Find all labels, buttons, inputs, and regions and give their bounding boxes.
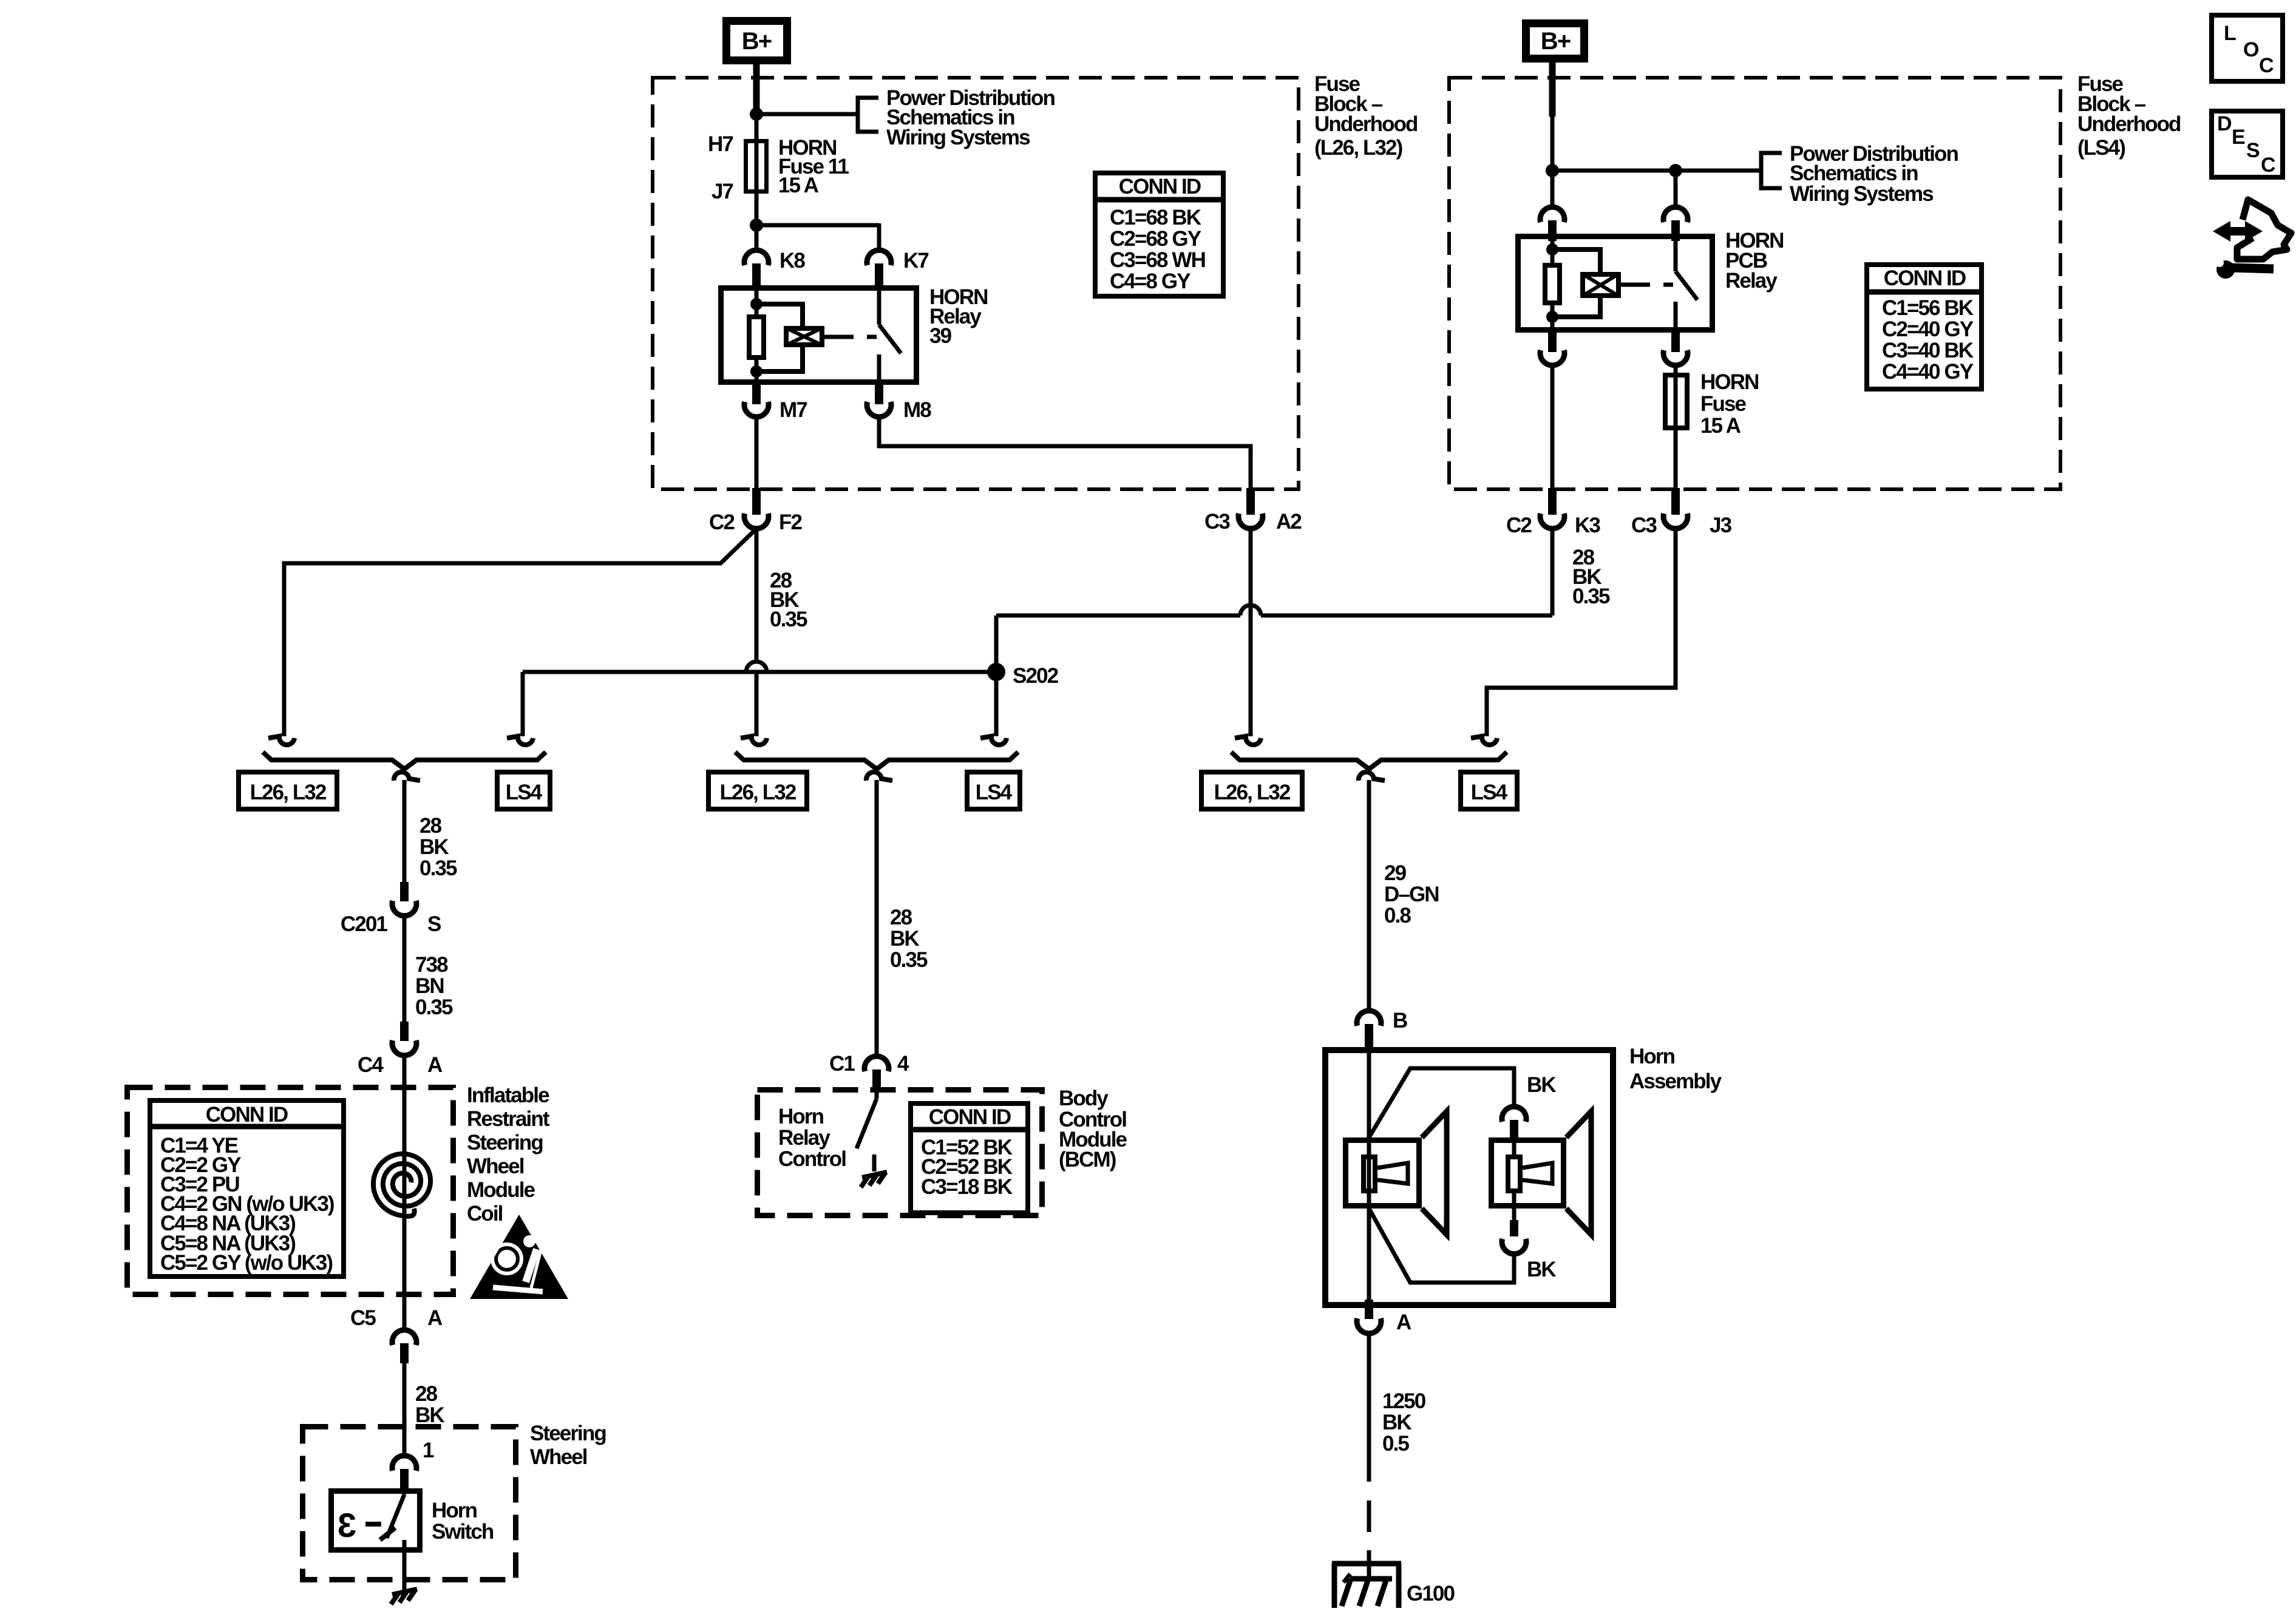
connector K8 arc [744, 250, 769, 265]
wire A down [1367, 1334, 1371, 1482]
wire relay to C2-K3 [1550, 365, 1555, 489]
svg-text:0.35: 0.35 [415, 995, 453, 1019]
svg-text:A2: A2 [1276, 510, 1302, 534]
svg-text:L26, L32: L26, L32 [250, 781, 327, 804]
svg-text:K7: K7 [903, 249, 928, 273]
svg-text:28: 28 [415, 1382, 438, 1406]
right horn driver [1508, 1157, 1520, 1191]
wire B+ to junction (right) [1549, 63, 1556, 117]
right horn bell [1566, 1111, 1591, 1235]
inflatable restraint module dashed box [127, 1088, 453, 1295]
steering wheel dashed box [303, 1427, 516, 1580]
connector C1 arc [864, 1056, 889, 1071]
svg-text:HORN: HORN [1700, 370, 1758, 394]
svg-text:1250: 1250 [1382, 1389, 1426, 1413]
svg-text:BK: BK [890, 927, 919, 951]
svg-text:15 A: 15 A [778, 174, 819, 197]
svg-text:B+: B+ [1541, 28, 1571, 55]
svg-text:Restraint: Restraint [467, 1107, 550, 1131]
svg-text:BK: BK [1527, 1073, 1556, 1097]
wire C2-F2 down [755, 529, 759, 662]
relay switch blade [879, 325, 901, 353]
svg-text:Underhood: Underhood [1314, 112, 1418, 136]
horn switch box [331, 1491, 420, 1550]
svg-text:LS4: LS4 [506, 781, 543, 804]
relay resistor (right) [1545, 265, 1560, 303]
svg-text:Relay: Relay [1725, 269, 1778, 293]
wire C201 to C4 [402, 916, 407, 1023]
wire through fuse F11 [755, 140, 759, 225]
wire from right horn bottom [1369, 1209, 1514, 1283]
wire group2 stem [875, 780, 879, 1057]
svg-text:S: S [427, 912, 441, 936]
junction dot relay bottom [750, 365, 763, 378]
svg-text:L26, L32: L26, L32 [1214, 781, 1291, 804]
pointer icon double arrow [2213, 221, 2263, 242]
wire-start hook group2 [866, 772, 892, 781]
svg-text:Wiring Systems: Wiring Systems [1790, 182, 1934, 206]
splice S202 dot [987, 663, 1005, 681]
svg-text:Coil: Coil [467, 1202, 503, 1225]
DESC reference box [2212, 111, 2283, 177]
connector K7 pin [875, 263, 883, 286]
connector C4 arc [392, 1040, 416, 1056]
connector C3-A2 arc [1238, 514, 1263, 529]
svg-text:BN: BN [415, 974, 444, 998]
left horn nozzle [1377, 1163, 1408, 1184]
svg-text:G100: G100 [1407, 1582, 1455, 1605]
svg-text:D–GN: D–GN [1384, 883, 1439, 906]
bcm switch contact [872, 1154, 877, 1171]
connector C3-J3 pin [1671, 488, 1680, 515]
connector relay-out right arc [1663, 350, 1688, 365]
connector relay-in right arc [1663, 207, 1688, 222]
svg-text:BK: BK [415, 1403, 444, 1427]
svg-text:L: L [2224, 22, 2236, 45]
svg-text:C5=2 GY (w/o UK3): C5=2 GY (w/o UK3) [160, 1251, 332, 1275]
right horn body [1492, 1141, 1564, 1206]
wire B+ to junction (left) [753, 64, 760, 117]
svg-text:A: A [427, 1053, 443, 1077]
connector B pin [1365, 1024, 1373, 1048]
svg-text:0.35: 0.35 [1572, 585, 1610, 608]
svg-text:LS4: LS4 [976, 781, 1013, 804]
svg-text:Horn: Horn [778, 1105, 824, 1128]
relay actuator dashed link [835, 335, 877, 339]
ground symbol (steering wheel) [391, 1589, 417, 1604]
connector C2-K3 pin [1548, 488, 1557, 515]
svg-text:4: 4 [897, 1052, 909, 1076]
relay coil symbol [786, 328, 822, 345]
svg-text:D: D [2217, 112, 2232, 135]
svg-text:Horn: Horn [1629, 1045, 1675, 1068]
ground symbol (BCM) [861, 1172, 887, 1187]
options brace group2 [735, 752, 1018, 769]
svg-text:C3=68 WH: C3=68 WH [1110, 248, 1205, 272]
svg-text:Relay: Relay [778, 1126, 830, 1150]
svg-text:S: S [2246, 139, 2260, 162]
connector 1 arc [392, 1456, 416, 1471]
horn assembly main wire [1367, 1048, 1371, 1301]
svg-text:CONN ID: CONN ID [206, 1103, 288, 1127]
junction dot A2 [750, 219, 763, 232]
option box L26,L32 (group2) [708, 772, 807, 809]
svg-text:15 A: 15 A [1700, 414, 1741, 438]
connector C4 pin [400, 1022, 409, 1041]
right horn internal wire [1512, 1137, 1517, 1154]
svg-text:CONN ID: CONN ID [1119, 175, 1201, 198]
svg-text:C2: C2 [709, 510, 735, 534]
svg-text:C2=68 GY: C2=68 GY [1110, 227, 1201, 251]
wire C2-F2 below hop [755, 672, 759, 736]
connector right horn top arc [1502, 1107, 1526, 1122]
steering wheel coil spiral [373, 1154, 430, 1216]
connector M8 pin [875, 385, 883, 404]
wire C5 to steering wheel [402, 1363, 407, 1457]
connector C3-A2 pin [1246, 488, 1255, 515]
wire-end hook group3 left [1235, 736, 1261, 745]
svg-text:C4=40 GY: C4=40 GY [1882, 360, 1974, 384]
wire junction to fuse H7 [755, 114, 759, 140]
power feed symbol B+ (left) [727, 21, 787, 61]
left horn body [1346, 1141, 1419, 1206]
wire M8 to C3-A2 [879, 417, 1251, 489]
connector relay-out left arc [1540, 350, 1564, 365]
relay box HORN Relay 39 [721, 288, 917, 382]
connector A pin [1365, 1300, 1373, 1319]
svg-text:J7: J7 [712, 180, 733, 203]
relay coil leg wire (right relay) [1550, 234, 1555, 333]
svg-text:C2=40 GY: C2=40 GY [1882, 317, 1974, 341]
horn switch blade [402, 1490, 407, 1494]
wire S202 to group2 hook [994, 672, 999, 736]
junction dot A1 [750, 107, 763, 121]
connector C201 arc [392, 901, 416, 916]
options brace group3 [1231, 752, 1507, 769]
connector C2-K3 arc [1540, 514, 1564, 529]
wire fuse to K8 [755, 194, 759, 251]
conn id table (BCM) [911, 1103, 1028, 1213]
svg-text:CONN ID: CONN ID [1884, 266, 1966, 290]
connector M8 arc [867, 402, 891, 417]
svg-text:F2: F2 [779, 510, 802, 534]
connector C201 pin [400, 882, 409, 901]
relay coil leg wire (left relay) [755, 285, 759, 385]
svg-text:K8: K8 [779, 249, 805, 273]
wire-end hook group1 right [507, 736, 533, 745]
svg-text:Steering: Steering [530, 1422, 606, 1445]
svg-text:0.8: 0.8 [1384, 904, 1411, 927]
connector C5 arc [392, 1330, 416, 1345]
wire hop over C3-A2 wire [1240, 605, 1261, 615]
wire-start hook group3 [1359, 772, 1385, 781]
ground symbol G100 [1332, 1561, 1401, 1567]
wire splice left leg [521, 672, 525, 736]
wire C3-J3 down [1487, 529, 1676, 736]
fuse block underhood (L26,L32) dashed box [653, 78, 1299, 489]
relay switch upper contact [877, 285, 881, 325]
conn id table (left fuse block) [1095, 173, 1223, 296]
svg-text:738: 738 [415, 953, 448, 977]
relay actuator dashed link (right) [1632, 283, 1673, 287]
svg-text:L26, L32: L26, L32 [720, 781, 796, 804]
relay box HORN PCB Relay [1518, 237, 1713, 330]
svg-text:C201: C201 [341, 912, 388, 936]
left horn bell [1422, 1111, 1447, 1235]
relay coil symbol (right) [1583, 274, 1618, 296]
body control module dashed box [758, 1090, 1042, 1216]
svg-text:B+: B+ [742, 28, 772, 55]
svg-text:C2: C2 [1506, 514, 1532, 537]
fuse block underhood (LS4) dashed box [1449, 78, 2060, 489]
svg-text:C3: C3 [1631, 514, 1657, 537]
wire C3-A2 down [1249, 529, 1253, 736]
splice wire S202 horizontal [523, 670, 996, 674]
junction dot relay bottom (right) [1546, 311, 1558, 323]
wire M7 to C2-F2 [755, 417, 759, 489]
svg-text:C3: C3 [1204, 510, 1230, 534]
connector K8 pin [752, 263, 761, 286]
svg-text:Horn: Horn [432, 1499, 477, 1522]
right horn nozzle [1523, 1163, 1552, 1184]
connector 1 pin [400, 1469, 409, 1488]
svg-text:Wheel: Wheel [530, 1445, 587, 1469]
svg-text:LS4: LS4 [1471, 781, 1508, 804]
svg-text:C1=68 BK: C1=68 BK [1110, 206, 1201, 229]
svg-text:(LS4): (LS4) [2077, 136, 2125, 160]
bcm switch blade [857, 1099, 877, 1148]
connector B arc [1357, 1011, 1381, 1026]
svg-text:C: C [2261, 154, 2275, 177]
svg-text:C: C [2259, 54, 2274, 77]
junction dot relay top [750, 298, 763, 310]
svg-text:0.35: 0.35 [419, 856, 457, 880]
svg-text:Wheel: Wheel [467, 1154, 524, 1178]
wire S202 up-right run [994, 615, 999, 672]
relay switch blade (right) [1676, 271, 1697, 300]
wire-end hook group1 left [268, 736, 294, 745]
svg-text:BK: BK [1527, 1258, 1556, 1281]
svg-text:Assembly: Assembly [1629, 1070, 1722, 1093]
connector K7 arc [867, 250, 891, 265]
horn assembly box [1325, 1050, 1613, 1305]
off-page reference bracket (left) [858, 98, 878, 132]
option box LS4 (group2) [967, 772, 1020, 809]
connector right horn top pin [1510, 1120, 1518, 1137]
svg-text:B: B [1393, 1009, 1407, 1032]
wire horn switch to ground [402, 1553, 407, 1591]
svg-text:Fuse: Fuse [1700, 392, 1747, 416]
diagonal wire C2-F2 to left run [284, 529, 756, 736]
horn switch fixed contact [402, 1540, 407, 1553]
svg-text:BK: BK [1382, 1411, 1411, 1434]
wire B2 down to relay [1674, 171, 1678, 207]
connector right horn bottom arc [1502, 1239, 1526, 1254]
svg-text:Body: Body [1059, 1086, 1109, 1110]
svg-text:CONN ID: CONN ID [929, 1105, 1011, 1129]
wire-end hook group2 right [980, 736, 1007, 745]
svg-text:K3: K3 [1575, 514, 1600, 537]
relay switch lower contact [877, 354, 881, 385]
option box L26,L32 (group1) [239, 772, 337, 809]
wire to right horn top [1369, 1068, 1514, 1137]
connector relay-out right pin [1671, 333, 1680, 352]
connector C2-F2 arc [744, 514, 769, 529]
junction dot B2 [1669, 164, 1682, 177]
wire group3 stem [1367, 780, 1371, 1012]
svg-text:0.35: 0.35 [770, 608, 807, 631]
svg-text:A: A [1396, 1310, 1411, 1334]
pointer icon wrench [2216, 260, 2235, 279]
options brace group1 [263, 752, 546, 769]
relay switch lower contact (right) [1674, 302, 1678, 333]
fuse HORN Fuse 15A (right) [1674, 374, 1678, 430]
dashed wire to G100 [1367, 1500, 1371, 1579]
connector C3-J3 arc [1663, 514, 1688, 529]
wire fuse to C3-J3 [1674, 430, 1678, 489]
svg-text:1: 1 [423, 1439, 434, 1462]
option box L26,L32 (group3) [1201, 772, 1302, 809]
wire junction to reference bracket (left) [756, 112, 858, 117]
svg-text:H7: H7 [708, 132, 733, 156]
svg-text:28: 28 [890, 906, 912, 929]
svg-text:M7: M7 [779, 398, 807, 422]
relay resistor [749, 317, 764, 358]
svg-text:(BCM): (BCM) [1059, 1148, 1116, 1171]
junction dot relay top (right) [1546, 243, 1558, 256]
svg-text:C3=40 BK: C3=40 BK [1882, 339, 1974, 362]
LOC reference box [2212, 15, 2283, 81]
pointer icon hand outline [2237, 200, 2291, 259]
wire group1 stem [402, 780, 407, 883]
left horn driver [1364, 1157, 1375, 1191]
svg-text:Inflatable: Inflatable [467, 1083, 549, 1107]
connector A arc [1357, 1318, 1381, 1334]
wire hop over splice line [746, 662, 767, 672]
svg-text:Underhood: Underhood [2077, 112, 2181, 136]
connector C2-F2 pin [752, 488, 761, 515]
connector right horn bottom pin [1510, 1220, 1518, 1236]
relay coil branch wire (right) [1552, 249, 1600, 273]
svg-text:C4: C4 [358, 1053, 384, 1077]
svg-text:C3=18 BK: C3=18 BK [921, 1175, 1013, 1199]
connector M7 arc [744, 402, 769, 417]
svg-text:C4=8 GY: C4=8 GY [1110, 269, 1190, 293]
svg-text:E: E [2232, 126, 2245, 149]
wire junction to K7 branch [756, 223, 879, 228]
wire junction to reference bracket (right) [1552, 169, 1761, 173]
svg-text:J3: J3 [1710, 514, 1732, 537]
relay switch upper contact (right) [1674, 234, 1678, 271]
horn switch actuator dashes [365, 1522, 381, 1527]
svg-text:C5: C5 [350, 1306, 376, 1330]
svg-text:S202: S202 [1013, 664, 1059, 688]
wire-end hook group3 right [1471, 736, 1497, 745]
option box LS4 (group3) [1461, 772, 1517, 809]
svg-text:28: 28 [419, 814, 442, 838]
svg-text:0.35: 0.35 [890, 948, 928, 972]
connector C5 pin [400, 1343, 409, 1363]
junction dot B1 [1546, 164, 1559, 177]
connector relay-out left pin [1548, 333, 1557, 352]
wire through module coil [402, 1056, 407, 1330]
svg-text:A: A [427, 1306, 443, 1330]
connector relay-in left arc [1540, 207, 1564, 222]
connector relay-in left pin [1548, 220, 1557, 241]
svg-text:(L26, L32): (L26, L32) [1314, 136, 1402, 160]
power feed symbol B+ (right) [1526, 24, 1584, 59]
wire-start hook group1 [394, 772, 420, 781]
connector M7 pin [752, 385, 761, 404]
conn id table (right fuse block) [1867, 265, 1982, 389]
svg-text:39: 39 [929, 324, 952, 348]
option box LS4 (group1) [497, 772, 550, 809]
wire-end hook group2 left [741, 736, 767, 745]
airbag warning triangle [470, 1215, 568, 1299]
svg-text:C1: C1 [829, 1052, 855, 1076]
fuse HORN Fuse 11 15A [746, 141, 767, 192]
svg-text:0.5: 0.5 [1382, 1432, 1409, 1456]
conn id table (module coil) [150, 1100, 344, 1276]
svg-text:Steering: Steering [467, 1131, 543, 1154]
wire junction down (right) [1550, 114, 1555, 207]
svg-text:O: O [2243, 38, 2259, 61]
svg-text:29: 29 [1384, 861, 1407, 885]
connector C1 pin [872, 1070, 881, 1088]
relay coil branch wire [756, 304, 803, 327]
bcm switch wire [875, 1089, 879, 1099]
svg-text:C1=56 BK: C1=56 BK [1882, 296, 1974, 320]
wire relay to HORN fuse [1674, 365, 1678, 375]
svg-text:Switch: Switch [432, 1520, 494, 1544]
off-page reference bracket (right) [1761, 153, 1782, 188]
svg-text:Module: Module [467, 1178, 535, 1202]
connector relay-in right pin [1671, 220, 1680, 241]
svg-text:Control: Control [778, 1147, 846, 1171]
svg-text:Wiring Systems: Wiring Systems [886, 126, 1030, 149]
svg-text:3: 3 [338, 1506, 356, 1544]
svg-text:M8: M8 [903, 398, 931, 422]
svg-text:BK: BK [419, 835, 449, 859]
